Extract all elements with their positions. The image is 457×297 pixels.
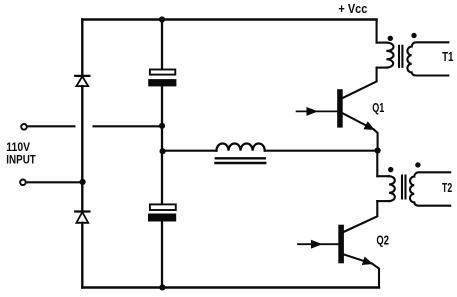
svg-text:T2: T2 xyxy=(442,180,452,195)
svg-text:INPUT: INPUT xyxy=(6,153,36,167)
svg-text:110V: 110V xyxy=(6,140,30,154)
svg-text:+ Vcc: + Vcc xyxy=(338,2,367,16)
svg-text:Q1: Q1 xyxy=(372,100,384,115)
svg-text:T1: T1 xyxy=(442,49,453,64)
svg-text:Q2: Q2 xyxy=(376,233,389,248)
